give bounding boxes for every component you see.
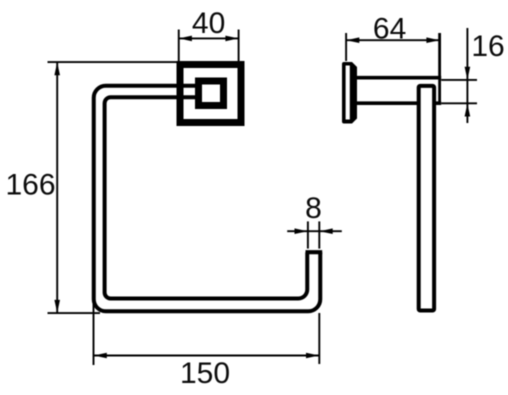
svg-text:8: 8 xyxy=(305,192,322,225)
svg-text:166: 166 xyxy=(5,169,55,202)
svg-text:40: 40 xyxy=(192,7,225,40)
svg-text:16: 16 xyxy=(471,30,504,63)
svg-text:64: 64 xyxy=(373,13,406,46)
svg-text:150: 150 xyxy=(180,357,230,390)
